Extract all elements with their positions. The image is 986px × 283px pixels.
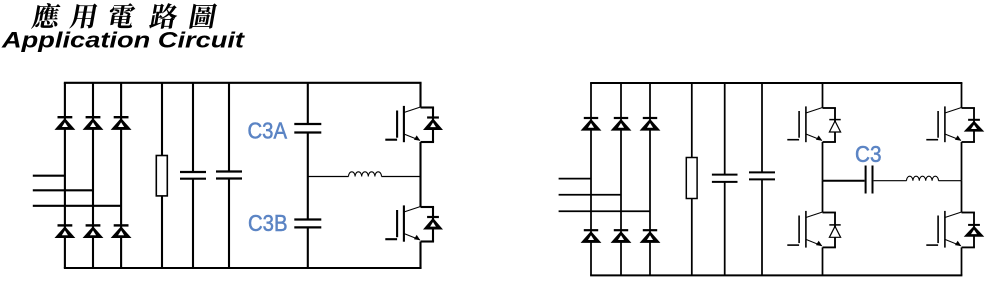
diode D15: [829, 120, 840, 132]
wire: capacitor C5 leg bottom: [761, 179, 763, 275]
diode D14: [641, 230, 659, 242]
wire: capacitor C4 leg bottom: [724, 182, 726, 276]
wire: Q1 collector lead: [419, 83, 421, 108]
wire: capacitor C4 leg top: [724, 83, 726, 175]
wire: right circuit DC+ top rail: [590, 82, 962, 84]
diode D6: [112, 225, 130, 237]
IGBT Q5: [787, 211, 836, 248]
label C3: [855, 141, 882, 167]
wire: C3A/C3B leg top: [307, 83, 309, 124]
wire: phase input line 3: [33, 205, 121, 207]
wire: resistor R2 leg: [691, 83, 693, 275]
inductor L2: [907, 176, 939, 181]
svg-text:Application Circuit: Application Circuit: [1, 27, 246, 52]
wire: left circuit DC- bottom rail: [64, 267, 422, 269]
diode D5: [112, 117, 130, 129]
diode D11: [612, 118, 630, 130]
IGBT Q4: [926, 106, 975, 142]
wire: Q1 emitter to midpoint: [419, 142, 421, 177]
wire: capacitor C1 leg top: [192, 83, 194, 172]
title (Chinese): 應用電路圖: [31, 3, 218, 29]
wire: Q2 collector lead: [419, 177, 421, 208]
IGBT Q6: [926, 211, 975, 248]
diode D9: [582, 118, 600, 130]
resistor R1: [156, 156, 167, 196]
wire: Q3 collector lead: [822, 83, 824, 108]
wire: phase input line 6: [559, 210, 650, 212]
diode D8: [424, 217, 442, 229]
wire: phase input line 5: [559, 194, 621, 196]
wire: Q4 collector lead: [961, 83, 963, 108]
wire: capacitor C2 leg bottom: [228, 179, 230, 269]
wire: Q2 emitter to bottom rail: [419, 242, 421, 269]
wire: rectifier leg 1: [64, 83, 66, 268]
wire: left midpoint to capacitor C3: [823, 180, 865, 182]
wire: capacitor C2 leg top: [228, 83, 230, 172]
inductor L1: [349, 172, 382, 177]
wire: Q6 emitter to bottom rail: [961, 247, 963, 275]
diode D12: [612, 230, 630, 242]
diode D3: [84, 117, 102, 129]
wire: phase input line 4: [559, 178, 591, 180]
diode D7: [424, 118, 442, 130]
resistor R2: [686, 158, 697, 199]
label C3B: [248, 210, 288, 236]
svg-text:C3B: C3B: [248, 210, 288, 236]
wire: C3A/C3B leg bottom: [307, 227, 309, 268]
diode D4: [84, 225, 102, 237]
wire: rectifier leg 6: [649, 83, 651, 275]
diode D18: [965, 225, 983, 236]
wire: Q5 emitter to bottom rail: [822, 247, 824, 275]
wire: Q3 emitter to midpoint: [822, 142, 824, 181]
wire: rectifier leg 4: [590, 83, 592, 275]
diode D17: [829, 225, 840, 237]
wire: rectifier leg 5: [620, 83, 622, 275]
wire: C3A/C3B leg middle: [307, 133, 309, 220]
wire: Q6 collector lead: [961, 181, 963, 213]
wire: capacitor midpoint to inductor: [308, 176, 349, 178]
title (English): Application Circuit: [1, 27, 246, 52]
wire: phase input line 1: [33, 175, 65, 177]
wire: phase input line 2: [33, 189, 93, 191]
diode D10: [582, 230, 600, 242]
wire: resistor leg: [161, 83, 163, 268]
wire: capacitor C3 to inductor L2: [874, 180, 907, 182]
diode D16: [965, 120, 983, 131]
capacitor C3A: [294, 124, 321, 133]
diode D1: [56, 117, 74, 129]
wire: inductor L2 to right midpoint: [939, 180, 962, 182]
IGBT Q1: [385, 106, 434, 142]
wire: rectifier leg 2: [92, 83, 94, 268]
diode D13: [641, 118, 659, 130]
svg-text:C3: C3: [855, 141, 882, 167]
wire: rectifier leg 3: [120, 83, 122, 268]
label C3A: [248, 118, 288, 144]
capacitor C4: [712, 175, 738, 182]
wire: Q4 emitter to midpoint: [961, 142, 963, 181]
wire: right circuit DC- bottom rail: [590, 274, 962, 276]
wire: capacitor C1 leg bottom: [192, 179, 194, 268]
IGBT Q3: [787, 106, 836, 142]
wire: capacitor C5 leg top: [761, 83, 763, 172]
capacitor C3: [866, 166, 873, 194]
capacitor C2: [216, 172, 242, 179]
IGBT Q2: [385, 205, 434, 241]
wire: left circuit DC+ top rail: [64, 82, 422, 84]
wire: Q5 collector lead: [822, 181, 824, 213]
capacitor C3B: [294, 220, 321, 228]
diode D2: [56, 225, 74, 237]
capacitor C5: [749, 172, 775, 179]
wire: inductor to half-bridge midpoint: [382, 176, 421, 178]
capacitor C1: [180, 172, 206, 179]
svg-text:C3A: C3A: [248, 118, 288, 144]
